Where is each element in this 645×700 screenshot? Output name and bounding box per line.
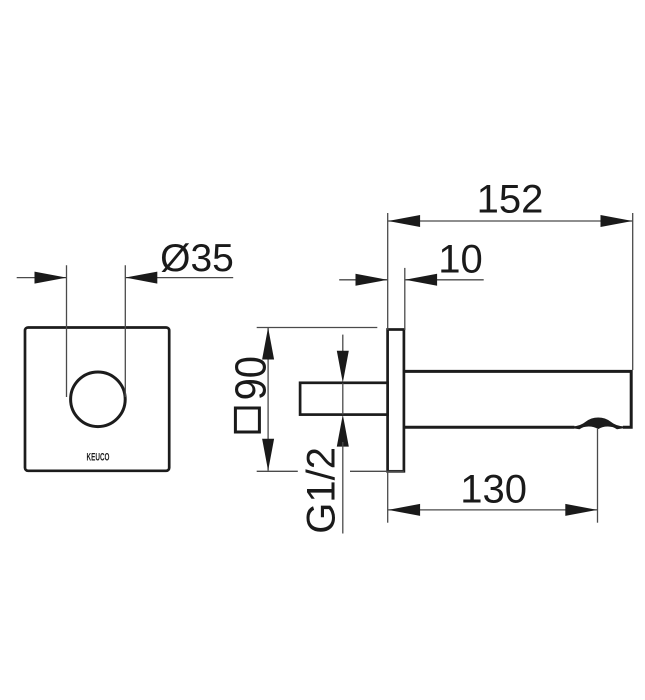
dimension Ø35 arrow right [125, 272, 157, 284]
svg-text:130: 130 [460, 467, 527, 511]
svg-text:G1/2: G1/2 [300, 447, 344, 534]
dimension 130 extension line right (aerator centre) [597, 429, 599, 523]
dimension 90 bottom extension line segment 2 [350, 470, 404, 472]
dimension 90 arrow top [262, 328, 274, 360]
dimension 130 arrow right [565, 504, 597, 516]
dimension G1/2 line lower segment [342, 442, 344, 534]
dimension 10 line left tail [339, 279, 387, 281]
dimension Ø35 arrow left [35, 272, 67, 284]
wall plate front view (square) [25, 328, 169, 471]
aerator wave band (filled arc with scalloped underside) [573, 418, 624, 428]
dimension 152 extension line left (wall face, above plate) [387, 213, 389, 330]
dimension 152 extension line right [632, 213, 634, 370]
dimension 152 line [388, 220, 633, 222]
dimension Ø35 line left segment [17, 277, 67, 279]
svg-text:90: 90 [226, 356, 275, 400]
dimension 152 arrow right [601, 215, 633, 227]
dimension 90 bottom extension line segment 1 [257, 470, 298, 472]
dimension 90 line [267, 328, 269, 471]
dimension Ø35 line right segment [125, 277, 233, 279]
dimension G1/2 arrow upper (points down to stub top) [337, 351, 349, 383]
dimension 10 arrow left (points right at wall face) [356, 274, 388, 286]
dimension 10 extension line right face [404, 268, 406, 330]
spout circle front view [71, 372, 126, 427]
dimension Ø35 extension line left [66, 265, 68, 397]
dimension 130 line [388, 509, 598, 511]
wall plate side view [388, 330, 404, 472]
svg-text:152: 152 [477, 178, 544, 222]
dimension 130 arrow left [388, 504, 420, 516]
dimension G1/2 line through stub [342, 383, 344, 415]
svg-text:10: 10 [438, 237, 483, 281]
dimension 152 arrow left [388, 215, 420, 227]
dimension 90 top extension line [257, 327, 378, 329]
dimension 130 extension line left (below plate) [387, 471, 389, 522]
G1/2 threaded stub [300, 383, 388, 415]
svg-text:Ø35: Ø35 [160, 237, 234, 280]
dimension G1/2 arrow lower (points up to stub bottom) [337, 415, 349, 447]
svg-text:KEUCO: KEUCO [87, 452, 110, 464]
square symbol of dim 90 [235, 408, 259, 432]
spout tube side view [404, 371, 631, 427]
dimension G1/2 line upper segment [342, 335, 344, 355]
dimension 90 arrow bottom [262, 439, 274, 471]
dimension 10 line right tail [405, 279, 484, 281]
dimension 10 arrow right (points left at plate right face) [405, 274, 437, 286]
dimension Ø35 extension line right [124, 265, 126, 397]
